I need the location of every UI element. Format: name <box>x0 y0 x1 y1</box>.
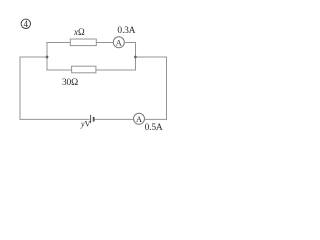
wire left connector vertical <box>46 42 48 71</box>
ammeter A1 <box>113 37 124 48</box>
battery short plate <box>93 117 95 122</box>
wire right outer vertical <box>166 57 168 120</box>
node junction left <box>46 56 49 59</box>
wire ammeter to bottom right corner <box>144 118 167 120</box>
resistor R2 (30 ohm) <box>72 66 96 73</box>
svg-text:4: 4 <box>24 19 29 29</box>
wire top branch left <box>47 42 70 44</box>
svg-text:xΩ: xΩ <box>73 27 85 37</box>
wire left outer vertical <box>19 57 21 120</box>
wire left junction to outer <box>20 56 47 58</box>
svg-text:yV: yV <box>80 119 91 128</box>
svg-text:A: A <box>136 115 142 124</box>
wire R1 to ammeter <box>96 42 113 44</box>
wire right junction to outer <box>136 56 167 58</box>
battery long plate <box>90 115 92 123</box>
ammeter A2 <box>134 113 145 124</box>
svg-text:0.5A: 0.5A <box>145 123 163 133</box>
label circled 4 <box>21 19 30 29</box>
svg-text:30Ω: 30Ω <box>62 78 78 88</box>
wire bottom branch left <box>47 69 72 71</box>
resistor R1 (x ohm) <box>70 39 96 46</box>
svg-text:A: A <box>116 38 122 47</box>
wire right connector vertical <box>135 42 137 71</box>
wire battery to ammeter <box>95 118 134 120</box>
wire bottom left to battery <box>20 118 90 120</box>
svg-text:0.3A: 0.3A <box>117 26 135 36</box>
wire ammeter to right corner <box>124 42 136 44</box>
node junction right <box>134 56 137 59</box>
wire R2 to right connector <box>96 69 136 71</box>
